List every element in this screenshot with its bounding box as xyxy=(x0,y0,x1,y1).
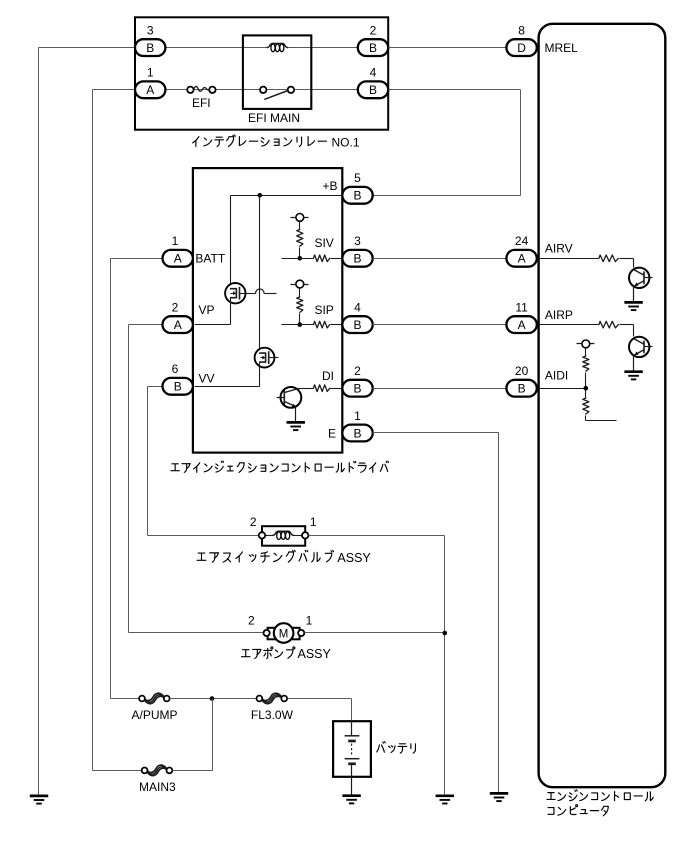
transistor T2 (AIRP) xyxy=(629,337,649,357)
svg-text:A: A xyxy=(174,318,182,332)
svg-text:+B: +B xyxy=(322,179,337,193)
air switching valve assy xyxy=(262,526,305,546)
svg-text:A: A xyxy=(518,318,526,332)
wire T1 emitter to ground xyxy=(633,287,635,303)
wire link to junction xyxy=(170,698,257,700)
transistor Q2 (MOSFET upper) xyxy=(225,283,245,303)
svg-text:B: B xyxy=(369,41,377,55)
node +B line inside driver xyxy=(231,195,343,197)
resistor AIRP xyxy=(599,321,618,328)
wire relay pin3 to ground (left vertical) xyxy=(39,47,135,49)
svg-text:B: B xyxy=(353,252,361,266)
svg-text:SIV: SIV xyxy=(314,236,333,250)
wire Q1 collector to DI line xyxy=(299,388,314,390)
wire terminal to resistor xyxy=(299,289,301,297)
resistor AIRV xyxy=(599,255,618,262)
node SIP junction xyxy=(298,322,303,327)
svg-text:B: B xyxy=(353,382,361,396)
air pump assy motor xyxy=(268,628,277,640)
svg-text:B: B xyxy=(146,41,154,55)
wire MOSFET1 gate stub with crossover hop xyxy=(240,293,256,295)
wire terminal to pull-up resistor xyxy=(585,348,587,357)
wire SIP to AIRP xyxy=(373,324,507,326)
wire lower resistor stub xyxy=(585,416,587,421)
driver pin 4 connector SIP xyxy=(342,316,372,333)
wire VP to air pump (x=128.4 vertical) xyxy=(129,324,163,326)
wire AIDI internal xyxy=(539,388,586,390)
terminal supply for SIV pull-up xyxy=(291,217,309,219)
svg-text:VP: VP xyxy=(199,303,215,317)
resistor AIDI pull-up xyxy=(583,356,589,371)
resistor DI series xyxy=(313,385,329,392)
svg-text:ASSY: ASSY xyxy=(337,551,371,565)
node SIV junction xyxy=(298,256,303,261)
wire Q1 emitter to ground xyxy=(295,407,297,423)
wire E to ground (x=499 vertical) xyxy=(373,432,499,434)
wire BATT to A/PUMP (x=110.5 vertical) xyxy=(111,258,163,260)
relay coil xyxy=(267,44,287,48)
wire T2 emitter to ground xyxy=(633,356,635,372)
ECU pin 24 connector xyxy=(506,250,536,267)
svg-text:B: B xyxy=(518,382,526,396)
svg-text:4: 4 xyxy=(354,300,361,314)
svg-text:2: 2 xyxy=(370,23,377,37)
svg-text:1: 1 xyxy=(354,409,361,423)
relay EFI MAIN inner box xyxy=(243,35,311,109)
ECU pin 20 connector xyxy=(506,380,536,397)
ground G6 right vertical xyxy=(436,794,454,797)
svg-text:B: B xyxy=(353,318,361,332)
relay pin 2 connector xyxy=(358,39,388,56)
relay switch xyxy=(260,87,266,93)
wire resistor to T1 collector xyxy=(620,258,634,260)
label air switching valve ASSY xyxy=(197,553,206,560)
svg-text:20: 20 xyxy=(515,364,529,378)
fuse EFI xyxy=(187,87,193,93)
engine control computer box xyxy=(539,24,666,787)
svg-text:NO.1: NO.1 xyxy=(332,135,360,149)
wire relay pin1 to MAIN3 (x=92 vertical) xyxy=(93,89,135,91)
integration relay box xyxy=(135,17,388,129)
wire MOSFET1 drain from +B xyxy=(230,196,232,289)
svg-text:6: 6 xyxy=(172,362,179,376)
svg-text:2: 2 xyxy=(250,515,257,529)
junction on +B line xyxy=(258,193,263,198)
wire AIRV internal xyxy=(539,258,599,260)
ground G3 for E pin xyxy=(490,792,508,795)
resistor SIP pull-up xyxy=(297,297,303,312)
node pump junction xyxy=(443,631,448,636)
transistor Q3 (MOSFET lower) xyxy=(255,348,275,368)
transistor T1 (AIRV) xyxy=(629,268,649,288)
wire +B branch to MOSFET2 (x=259.8 vertical) xyxy=(259,196,261,354)
wire valve line left xyxy=(148,535,259,537)
label engine control computer line2 xyxy=(548,808,554,815)
svg-text:2: 2 xyxy=(354,364,361,378)
terminal supply for SIP pull-up xyxy=(291,284,309,286)
svg-text:D: D xyxy=(517,41,526,55)
svg-text:AIRV: AIRV xyxy=(545,242,573,256)
wire MOSFET1 source to VP line xyxy=(230,298,232,325)
relay pin 1 connector xyxy=(135,81,165,98)
wire MAIN3 line xyxy=(93,770,142,772)
label engine control computer line1 xyxy=(547,793,555,800)
svg-text:3: 3 xyxy=(354,234,361,248)
svg-text:1: 1 xyxy=(310,515,317,529)
wire SIP line xyxy=(282,324,314,326)
wire relay internal bottom run (pin1 to pin4) xyxy=(165,89,359,91)
svg-text:B: B xyxy=(353,189,361,203)
driver pin 5 connector xyxy=(342,187,372,204)
svg-text:ASSY: ASSY xyxy=(298,647,332,661)
svg-text:1: 1 xyxy=(147,66,154,80)
svg-text:E: E xyxy=(328,426,336,440)
resistor SIP series xyxy=(313,321,329,328)
svg-text:VV: VV xyxy=(199,372,215,386)
wire resistor to SIP node xyxy=(299,314,301,325)
svg-text:2: 2 xyxy=(248,614,255,628)
ground G7 battery xyxy=(342,794,360,797)
fusible link FL3.0W xyxy=(261,693,281,700)
svg-text:SIP: SIP xyxy=(314,303,333,317)
wire resistor to pin 3 xyxy=(331,258,343,260)
wire relay pin4 to driver +B (x=520 vertical) xyxy=(389,89,521,91)
svg-text:B: B xyxy=(353,426,361,440)
ground G5 under T2 xyxy=(624,370,642,373)
wire SIV line xyxy=(282,258,314,260)
svg-text:4: 4 xyxy=(370,66,377,80)
wire resistor to pin 4 xyxy=(331,324,343,326)
ECU pin 8 connector MREL xyxy=(506,39,536,56)
wire node to lower resistor xyxy=(585,389,587,399)
resistor SIV series xyxy=(313,255,329,262)
svg-text:3: 3 xyxy=(147,23,154,37)
ground G1 bottom-left xyxy=(30,795,48,798)
ECU pin 11 connector xyxy=(506,316,536,333)
label integration relay NO.1 xyxy=(193,137,199,147)
resistor SIV pull-up xyxy=(297,230,303,247)
wire Q1 base stub xyxy=(277,397,285,399)
svg-text:1: 1 xyxy=(306,614,313,628)
svg-text:2: 2 xyxy=(172,300,179,314)
wire SIV to AIRV xyxy=(373,258,507,260)
terminal supply for AIDI pull-up xyxy=(577,343,595,345)
svg-text:8: 8 xyxy=(518,23,525,37)
wire DI to AIDI xyxy=(373,388,507,390)
wire relay internal top run (pin3 to pin2) xyxy=(165,47,268,49)
svg-text:B: B xyxy=(369,83,377,97)
svg-text:11: 11 xyxy=(515,300,528,314)
svg-text:EFI MAIN: EFI MAIN xyxy=(248,111,300,125)
wire MREL net (relay pin2 to ECU pin8) xyxy=(389,47,507,49)
driver pin 1 connector E xyxy=(342,425,372,442)
fusible link A/PUMP xyxy=(143,693,163,700)
ground G2 inside driver xyxy=(287,421,305,424)
wire resistor to AIDI node xyxy=(585,373,587,389)
resistor AIDI lower xyxy=(583,398,589,414)
label air injection control driver xyxy=(171,464,179,471)
driver pin 2 connector DI xyxy=(342,380,372,397)
svg-text:24: 24 xyxy=(515,234,529,248)
air injection control driver box xyxy=(193,168,342,453)
wire MOSFET2 gate stub xyxy=(269,357,279,359)
transistor Q1 (DI output) xyxy=(281,387,302,408)
ground G4 under T1 xyxy=(624,301,642,304)
wire resistor to T2 collector xyxy=(620,324,634,326)
fusible link MAIN3 xyxy=(146,765,166,772)
svg-text:A/PUMP: A/PUMP xyxy=(131,708,177,722)
svg-text:MREL: MREL xyxy=(545,41,579,55)
svg-text:AIDI: AIDI xyxy=(545,369,568,383)
label battery (katakana) xyxy=(377,742,385,753)
svg-text:M: M xyxy=(279,628,289,640)
svg-text:AIRP: AIRP xyxy=(545,308,573,322)
relay pin 3 connector xyxy=(135,39,165,56)
wire terminal to resistor xyxy=(299,222,301,230)
svg-text:A: A xyxy=(146,83,154,97)
label air pump ASSY xyxy=(241,650,250,657)
wire VV to switching valve (x=147.6 vertical) xyxy=(148,386,163,388)
svg-text:A: A xyxy=(518,252,526,266)
wire MAIN3 to junction riser xyxy=(173,770,213,772)
driver pin 6 connector VV xyxy=(163,378,193,395)
svg-text:1: 1 xyxy=(172,234,179,248)
wire AIRP internal xyxy=(539,324,599,326)
wire pump to right vertical xyxy=(305,632,445,634)
svg-text:MAIN3: MAIN3 xyxy=(139,780,176,794)
driver pin 2 connector VP xyxy=(163,316,193,333)
svg-text:FL3.0W: FL3.0W xyxy=(251,708,294,722)
svg-text:EFI: EFI xyxy=(192,96,211,110)
wire pump line left xyxy=(129,632,264,634)
wire resistor to SIV node xyxy=(299,248,301,259)
svg-text:B: B xyxy=(174,380,182,394)
svg-text:5: 5 xyxy=(354,171,361,185)
wire resistor to pin 2 xyxy=(331,388,343,390)
node battery feed junction xyxy=(210,696,215,701)
wire link to battery xyxy=(288,698,352,700)
wire right vertical to ground (x=444.8) xyxy=(444,536,446,796)
relay pin 4 connector xyxy=(358,81,388,98)
wire valve to right vertical xyxy=(309,535,445,537)
driver pin 1 connector BATT xyxy=(163,250,193,267)
svg-text:A: A xyxy=(174,252,182,266)
wire A PUMP line xyxy=(111,698,140,700)
wire MOSFET2 source to VV line xyxy=(259,363,261,387)
battery xyxy=(333,721,371,777)
driver pin 3 connector SIV xyxy=(342,250,372,267)
svg-text:DI: DI xyxy=(322,369,334,383)
svg-text:BATT: BATT xyxy=(195,251,225,265)
node AIDI junction xyxy=(584,386,589,391)
